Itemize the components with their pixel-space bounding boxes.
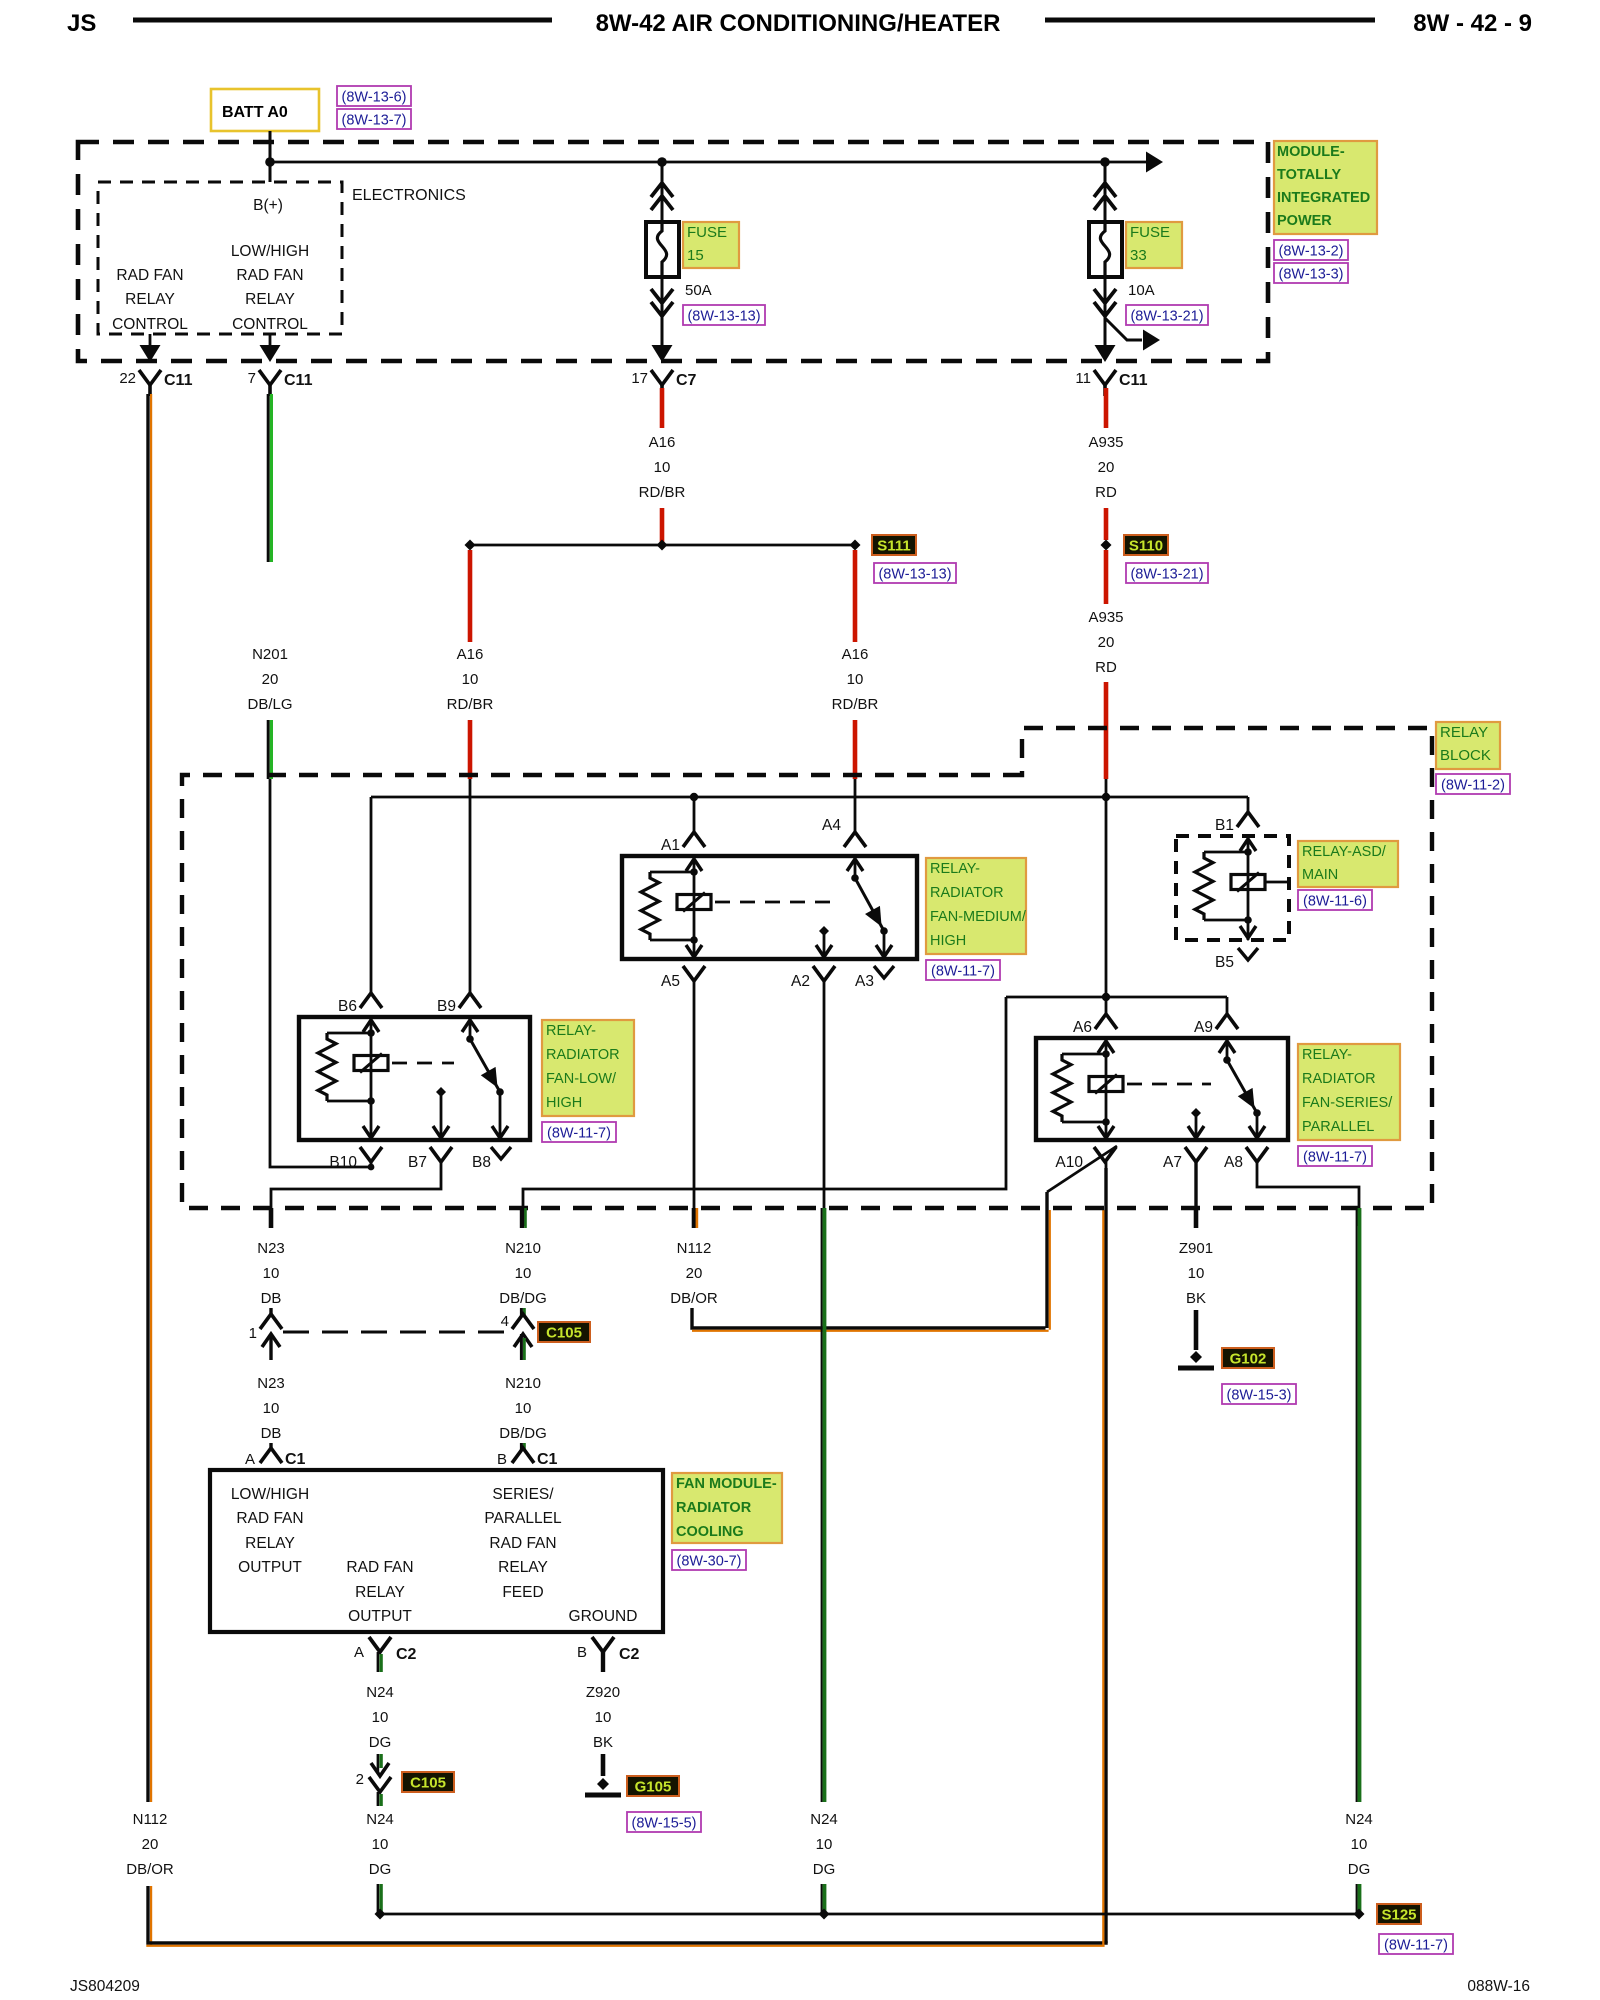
relay-ser-par pin A7 fork (1185, 1147, 1207, 1162)
svg-text:20: 20 (1098, 459, 1115, 476)
wire N112 DB/OR from C11-22 down (146, 394, 149, 1802)
svg-text:(8W-13-21): (8W-13-21) (1130, 567, 1203, 583)
fan module-radiator cooling box (210, 1470, 663, 1632)
connector C105 pin 4 (520, 1308, 523, 1316)
svg-text:BLOCK: BLOCK (1440, 747, 1491, 764)
svg-text:TOTALLY: TOTALLY (1277, 167, 1342, 183)
svg-text:(8W-11-7): (8W-11-7) (931, 964, 995, 980)
link 8W-13-6 (337, 86, 411, 106)
link 8W-13-13 fuse15 (683, 305, 765, 325)
svg-text:RELAY-: RELAY- (930, 861, 980, 877)
svg-text:C2: C2 (396, 1646, 417, 1663)
svg-text:20: 20 (1098, 634, 1115, 651)
junction corner at B10 drop (368, 1164, 375, 1171)
relay-med-high switch dashed actuation line (715, 901, 839, 904)
relay-low-high coil symbol box (370, 1033, 373, 1101)
wire N112 bottom horizontal run (146, 1941, 1107, 1944)
svg-text:RD: RD (1095, 484, 1117, 501)
svg-text:10: 10 (263, 1400, 280, 1417)
svg-text:A9: A9 (1194, 1019, 1213, 1036)
relay-low-high switch input arrow (462, 1020, 478, 1032)
wire N24 DG from A8 down right side (1356, 1208, 1358, 1802)
relay-med-high coil bottom junction (650, 939, 694, 942)
tee junction on A935 to A9 and N210 (1006, 996, 1227, 999)
wire A16 RD/BR left branch upper (468, 550, 473, 642)
svg-text:B: B (577, 1644, 587, 1661)
svg-text:RAD FAN: RAD FAN (236, 267, 303, 284)
link 8W-11-6 (1298, 890, 1372, 910)
svg-text:17: 17 (631, 370, 648, 387)
junction at fuse 15 tap (657, 157, 667, 167)
svg-text:HIGH: HIGH (546, 1095, 582, 1111)
svg-text:(8W-13-6): (8W-13-6) (342, 90, 407, 106)
relay-med-high switch input arrow (847, 859, 863, 871)
svg-text:A7: A7 (1163, 1154, 1182, 1171)
wire B7 to N23 path (271, 1162, 441, 1226)
fuse 15 label (683, 222, 739, 268)
svg-text:088W-16: 088W-16 (1467, 1978, 1530, 1995)
svg-text:RADIATOR: RADIATOR (676, 1500, 752, 1516)
svg-text:(8W-30-7): (8W-30-7) (677, 1554, 742, 1570)
wire N24 stub to splice line (377, 1884, 380, 1912)
ground label G102 (1222, 1348, 1274, 1368)
svg-text:DB/OR: DB/OR (126, 1861, 174, 1878)
svg-text:10: 10 (372, 1709, 389, 1726)
svg-text:FAN-MEDIUM/: FAN-MEDIUM/ (930, 909, 1027, 925)
wire N112 right riser to A10 (1104, 1168, 1107, 1943)
svg-text:(8W-11-7): (8W-11-7) (547, 1126, 611, 1142)
svg-text:B10: B10 (329, 1154, 357, 1171)
relay-low-high coil top junction (327, 1032, 371, 1035)
svg-text:RADIATOR: RADIATOR (930, 885, 1004, 901)
svg-text:RD/BR: RD/BR (447, 696, 494, 713)
wire to relay B9 inside block (469, 779, 472, 994)
svg-text:RAD FAN: RAD FAN (489, 1535, 556, 1552)
wire A2 down across block (823, 981, 826, 1208)
wire N201 inside relay block to B10 corner (270, 779, 371, 1167)
wire N201 DB/LG from C11-7 down (267, 394, 270, 562)
relay-ser-par pin A8 fork (1246, 1147, 1268, 1162)
wire N112 stub below block (692, 1208, 697, 1228)
relay-asd coil bottom junction (1204, 919, 1248, 922)
fuse F33 off-page chevrons down (1094, 302, 1116, 316)
wire N24 DG right stub to splice (1356, 1884, 1358, 1912)
svg-text:B(+): B(+) (253, 197, 283, 214)
svg-text:FEED: FEED (502, 1584, 543, 1601)
link 8W-30-7 (672, 1550, 746, 1570)
header rule right (1045, 18, 1375, 23)
svg-text:RADIATOR: RADIATOR (1302, 1071, 1376, 1087)
svg-text:RELAY: RELAY (355, 1584, 405, 1601)
fuse F15 output wire (661, 277, 664, 358)
wire N23 stub (269, 1208, 274, 1228)
connector C2 pin B (592, 1637, 614, 1652)
relay-asd coil symbol box (1247, 852, 1250, 920)
wire Z901 to ground (1194, 1310, 1199, 1350)
svg-text:(8W-13-13): (8W-13-13) (878, 567, 951, 583)
dashed connector line C105 (283, 1331, 508, 1334)
splice S125 bus line (380, 1913, 1359, 1916)
svg-text:RELAY: RELAY (245, 291, 295, 308)
svg-text:RAD FAN: RAD FAN (346, 1559, 413, 1576)
svg-text:C11: C11 (284, 372, 313, 389)
svg-text:BK: BK (593, 1734, 613, 1751)
fuse F33 off-page chevrons up (1094, 183, 1116, 197)
wire A16 RD/BR right branch upper (853, 550, 858, 642)
svg-text:DB/DG: DB/DG (499, 1425, 547, 1442)
relay-low-high switch arm (470, 1039, 500, 1092)
junction at B+ drop (265, 157, 275, 167)
junction at A935 crossing (1102, 793, 1110, 801)
svg-text:DG: DG (369, 1861, 392, 1878)
relay-low-high mid stub pin (436, 1087, 446, 1097)
relay-med-high switch arm (855, 878, 884, 931)
svg-text:B: B (497, 1451, 507, 1468)
svg-text:10: 10 (515, 1400, 532, 1417)
link 8W-11-2 (1436, 774, 1510, 794)
header rule left (133, 18, 552, 23)
svg-text:CONTROL: CONTROL (232, 316, 308, 333)
svg-text:A16: A16 (457, 646, 484, 663)
relay-med-high pin A5 fork (683, 966, 705, 981)
branch wire down to A9 (1226, 997, 1229, 1015)
connector C11 pin 7 (259, 370, 281, 385)
relay-med-high coil pin arrow (686, 859, 702, 871)
wire A16 RD/BR from C7 upper segment (660, 388, 665, 428)
svg-text:8W - 42 - 9: 8W - 42 - 9 (1413, 10, 1532, 37)
link 8W-13-21 fuse33 (1126, 305, 1208, 325)
relay-low-high switch pivot (466, 1035, 474, 1043)
svg-text:(8W-13-7): (8W-13-7) (342, 113, 407, 129)
link 8W-13-3 (1274, 263, 1348, 283)
relay-ser-par mid stub pin (1191, 1108, 1201, 1118)
svg-text:A5: A5 (661, 973, 680, 990)
svg-text:N201: N201 (252, 646, 288, 663)
svg-text:RAD FAN: RAD FAN (236, 1510, 303, 1527)
svg-text:10: 10 (816, 1836, 833, 1853)
relay-low-high label (542, 1020, 634, 1116)
svg-text:FUSE: FUSE (1130, 224, 1170, 241)
svg-text:DB: DB (261, 1290, 282, 1307)
wire A935 inside relay block down to A6 (1105, 779, 1108, 1015)
relay-ser-par pin A10 fork (1094, 1147, 1116, 1162)
wire N112 DB/OR to bottom corner (146, 1886, 149, 1942)
svg-text:C105: C105 (546, 1325, 582, 1342)
relay-ser-par coil top junction (1062, 1053, 1106, 1056)
svg-text:(8W-13-13): (8W-13-13) (687, 309, 760, 325)
fuse F33 feed wire (1104, 162, 1107, 222)
bus arrow to right feed (1146, 152, 1163, 173)
relay-low-high switch output pin arrow (492, 1126, 508, 1138)
relay-asd coil top junction (1204, 851, 1248, 854)
splice S111 bus line (470, 544, 855, 547)
svg-text:10: 10 (1188, 1265, 1205, 1282)
svg-text:B7: B7 (408, 1154, 427, 1171)
svg-text:15: 15 (687, 247, 704, 264)
svg-text:PARALLEL: PARALLEL (484, 1510, 562, 1527)
wire A10 down (1105, 1162, 1108, 1210)
link 8W-15-3 (1222, 1384, 1296, 1404)
wire N112 L-run to A10 riser (692, 1308, 1046, 1328)
svg-text:RELAY-: RELAY- (1302, 1047, 1352, 1063)
svg-text:(8W-13-21): (8W-13-21) (1130, 309, 1203, 325)
svg-text:A4: A4 (822, 817, 841, 834)
relay-low-high body (299, 1017, 530, 1140)
relay-low-high resistor coil (318, 1033, 336, 1101)
relay-ser-par body (1036, 1038, 1288, 1140)
svg-text:7: 7 (248, 370, 256, 387)
connector C105 pin 2 (377, 1754, 380, 1772)
svg-text:20: 20 (142, 1836, 159, 1853)
wire N24 DG stub to splice (821, 1884, 823, 1912)
wire Z901 stub (1194, 1208, 1199, 1228)
svg-text:MODULE-: MODULE- (1277, 144, 1345, 160)
wire Z920 to ground (601, 1754, 606, 1776)
svg-text:C1: C1 (285, 1451, 306, 1468)
relay-ser-par coil symbol box (1105, 1054, 1108, 1122)
svg-text:OUTPUT: OUTPUT (348, 1608, 412, 1625)
wire A16 RD/BR right branch lower (853, 720, 858, 779)
relay-med-high resistor coil (641, 872, 659, 940)
junction diamond N24 center (819, 1909, 830, 1920)
svg-text:Z901: Z901 (1179, 1240, 1213, 1257)
svg-text:C11: C11 (164, 372, 193, 389)
module-totally integrated power dashed outline (78, 142, 1268, 361)
svg-text:A: A (354, 1644, 364, 1661)
svg-text:S111: S111 (877, 538, 910, 555)
svg-text:RELAY-ASD/: RELAY-ASD/ (1302, 844, 1387, 860)
svg-text:20: 20 (686, 1265, 703, 1282)
relay-asd label (1298, 841, 1398, 887)
relay-ser-par label (1298, 1044, 1400, 1140)
wire to relay A4 inside block (854, 779, 857, 833)
svg-text:CONTROL: CONTROL (112, 316, 188, 333)
svg-text:10: 10 (654, 459, 671, 476)
splice label S110 (1124, 535, 1168, 555)
wire A935 20 RD upper segment (1104, 388, 1109, 428)
svg-text:10A: 10A (1128, 282, 1155, 299)
connector C105 pin 1 (269, 1308, 272, 1316)
svg-text:10: 10 (1351, 1836, 1368, 1853)
wire from BATT A0 down to B(+) (269, 131, 272, 182)
module TIPM label MODULE-TOTALLY INTEGRATED POWER (1274, 141, 1377, 234)
connector label C105 upper (538, 1322, 590, 1342)
link 8W-11-7 med-high (926, 960, 1000, 980)
svg-text:B8: B8 (472, 1154, 491, 1171)
relay-med-high switch arm end (880, 927, 888, 935)
relay-asd pin B5 chevron (1238, 948, 1258, 960)
svg-text:A10: A10 (1055, 1154, 1083, 1171)
svg-text:POWER: POWER (1277, 213, 1332, 229)
relay block dashed outline (182, 728, 1432, 1208)
relay-asd resistor coil (1195, 852, 1213, 920)
svg-text:S125: S125 (1381, 1907, 1416, 1924)
relay coil supply bus (371, 796, 1248, 799)
wire N24 DG from A2 down (821, 1208, 823, 1802)
relay-med-high mid stub pin (819, 926, 829, 936)
junction at fuse 33 tap (1100, 157, 1110, 167)
svg-text:(8W-13-3): (8W-13-3) (1279, 267, 1344, 283)
svg-text:PARALLEL: PARALLEL (1302, 1119, 1374, 1135)
fan module label FAN MODULE-RADIATOR COOLING (672, 1473, 782, 1543)
link 8W-11-7 ser-par (1298, 1146, 1372, 1166)
wire N201 DB/LG lower segment (267, 720, 270, 779)
relay-med-high coil output pin arrow (693, 940, 696, 959)
fuse 33 body (1089, 222, 1122, 277)
svg-text:DG: DG (369, 1734, 392, 1751)
svg-text:A3: A3 (855, 973, 874, 990)
svg-text:DB: DB (261, 1425, 282, 1442)
svg-text:INTEGRATED: INTEGRATED (1277, 190, 1370, 206)
connector C11 pin 11 (1094, 370, 1116, 385)
junction diamond center at C7 drop (657, 540, 668, 551)
svg-text:(8W-11-6): (8W-11-6) (1303, 894, 1367, 910)
svg-text:1: 1 (249, 1325, 257, 1342)
svg-text:LOW/HIGH: LOW/HIGH (231, 1486, 309, 1503)
svg-text:(8W-11-2): (8W-11-2) (1441, 778, 1505, 794)
svg-text:RELAY: RELAY (245, 1535, 295, 1552)
svg-text:B9: B9 (437, 998, 456, 1015)
relay-ser-par pin A6 fork (1095, 1014, 1117, 1029)
svg-text:RELAY: RELAY (1440, 724, 1488, 741)
relay-med-high switch pivot (851, 874, 859, 882)
fuse F33 arrow at connector (1095, 345, 1116, 362)
connector C2 pin A (369, 1637, 391, 1652)
svg-text:A6: A6 (1073, 1019, 1092, 1036)
relay-asd pin arrow (1240, 839, 1256, 851)
link 8W-13-13 at S111 (874, 563, 956, 583)
svg-text:DB/OR: DB/OR (670, 1290, 718, 1307)
relay-ser-par switch arm end (1253, 1109, 1261, 1117)
svg-text:N23: N23 (257, 1375, 285, 1392)
svg-text:SERIES/: SERIES/ (492, 1486, 554, 1503)
svg-text:RELAY: RELAY (498, 1559, 548, 1576)
relay-low-high pin B10 fork (360, 1147, 382, 1162)
wire A7 down to Z901 (1194, 1162, 1197, 1226)
svg-text:JS804209: JS804209 (70, 1978, 140, 1995)
svg-text:20: 20 (262, 671, 279, 688)
svg-text:10: 10 (462, 671, 479, 688)
svg-text:C11: C11 (1119, 372, 1148, 389)
relay ASD-main dashed body (1176, 836, 1289, 940)
svg-text:FAN-LOW/: FAN-LOW/ (546, 1071, 617, 1087)
wire A935 RD entering relay block (1104, 682, 1109, 779)
svg-text:N24: N24 (366, 1811, 394, 1828)
fuse F15 arrow at connector (652, 345, 673, 362)
relay-ser-par coil pin arrow (1098, 1041, 1114, 1053)
link 8W-13-7 (337, 109, 411, 129)
svg-text:(8W-15-3): (8W-15-3) (1227, 1388, 1292, 1404)
relay-ser-par coil output pin arrow (1105, 1122, 1108, 1140)
relay-med-high coil symbol box (693, 872, 696, 940)
relay-low-high coil output pin arrow (370, 1101, 373, 1140)
wire A5 down to N112 label (693, 981, 696, 1226)
svg-text:Z920: Z920 (586, 1684, 620, 1701)
svg-text:10: 10 (263, 1265, 280, 1282)
wire N112 diagonal from A5 riser to A10 (1047, 1146, 1117, 1192)
svg-text:RD/BR: RD/BR (639, 484, 686, 501)
fuse 15 body (646, 222, 679, 277)
connector C11 pin 22 (139, 370, 161, 385)
connector C7 pin 17 (651, 370, 673, 385)
relay-ser-par resistor coil (1053, 1054, 1071, 1122)
svg-text:N112: N112 (677, 1240, 712, 1257)
wire from bus to A1 (693, 797, 696, 832)
fuse 33 label (1126, 222, 1182, 268)
relay-med-high pin A3 chevron (874, 966, 894, 978)
svg-text:G105: G105 (635, 1779, 672, 1796)
svg-text:A2: A2 (791, 973, 810, 990)
relay-low-high switch arm end (496, 1088, 504, 1096)
svg-text:ELECTRONICS: ELECTRONICS (352, 187, 466, 204)
svg-text:N24: N24 (1345, 1811, 1373, 1828)
fuse F33 output wire (1104, 277, 1107, 358)
relay-low-high coil bottom junction (327, 1100, 371, 1103)
wire N210 stub (520, 1208, 524, 1228)
junction diamond N24 left (375, 1909, 386, 1920)
svg-text:N23: N23 (257, 1240, 285, 1257)
relay-low-high pin B7 fork (430, 1147, 452, 1162)
svg-text:DB/DG: DB/DG (499, 1290, 547, 1307)
svg-text:OUTPUT: OUTPUT (238, 1559, 302, 1576)
TIPM internal B+ bus wire (270, 161, 1146, 164)
svg-text:RADIATOR: RADIATOR (546, 1047, 620, 1063)
svg-text:N210: N210 (505, 1240, 541, 1257)
svg-text:(8W-13-2): (8W-13-2) (1279, 244, 1344, 260)
link 8W-11-7 at S125 (1379, 1934, 1453, 1954)
relay-low-high pin B8 chevron (491, 1147, 511, 1159)
wire A8 to N24 right (1257, 1162, 1359, 1226)
relay-asd pin B1 fork (1237, 812, 1259, 827)
relay-low-high switch dashed actuation line (392, 1062, 454, 1065)
ground G102 symbol (1190, 1351, 1202, 1363)
relay-asd stub to box edge (1265, 881, 1289, 884)
svg-text:A935: A935 (1088, 609, 1123, 626)
relay-med-high pin A4 fork (844, 832, 866, 847)
splice S110 diamond (1101, 540, 1112, 551)
fuse F15 off-page chevrons up (651, 183, 673, 197)
relay-ser-par switch output pin arrow (1249, 1126, 1265, 1138)
svg-text:(8W-11-7): (8W-11-7) (1384, 1938, 1448, 1954)
svg-text:(8W-15-5): (8W-15-5) (632, 1816, 697, 1832)
relay-low-high pin B9 fork (459, 993, 481, 1008)
fuse F33 branch arrow right (1105, 318, 1142, 340)
relay-low-high coil pin arrow (363, 1020, 379, 1032)
svg-text:10: 10 (847, 671, 864, 688)
svg-text:B5: B5 (1215, 954, 1234, 971)
ground label G105 (627, 1776, 679, 1796)
svg-text:B6: B6 (338, 998, 357, 1015)
svg-text:A8: A8 (1224, 1154, 1243, 1171)
wire A935 RD below splice (1104, 550, 1109, 604)
svg-text:A16: A16 (842, 646, 869, 663)
relay-ser-par switch pivot (1223, 1056, 1231, 1064)
svg-text:N24: N24 (810, 1811, 838, 1828)
junction at A1 drop (690, 793, 698, 801)
svg-text:A: A (245, 1451, 255, 1468)
svg-text:N112: N112 (133, 1811, 168, 1828)
connector C1 pin B (520, 1443, 523, 1450)
svg-text:RD: RD (1095, 659, 1117, 676)
svg-text:50A: 50A (685, 282, 712, 299)
svg-text:BK: BK (1186, 1290, 1206, 1307)
connector C1 pin A (269, 1443, 272, 1450)
ground G105 symbol (597, 1778, 609, 1790)
fuse F15 off-page chevrons down (651, 302, 673, 316)
svg-text:DG: DG (813, 1861, 836, 1878)
svg-text:JS: JS (67, 10, 96, 37)
svg-text:RAD FAN: RAD FAN (116, 267, 183, 284)
